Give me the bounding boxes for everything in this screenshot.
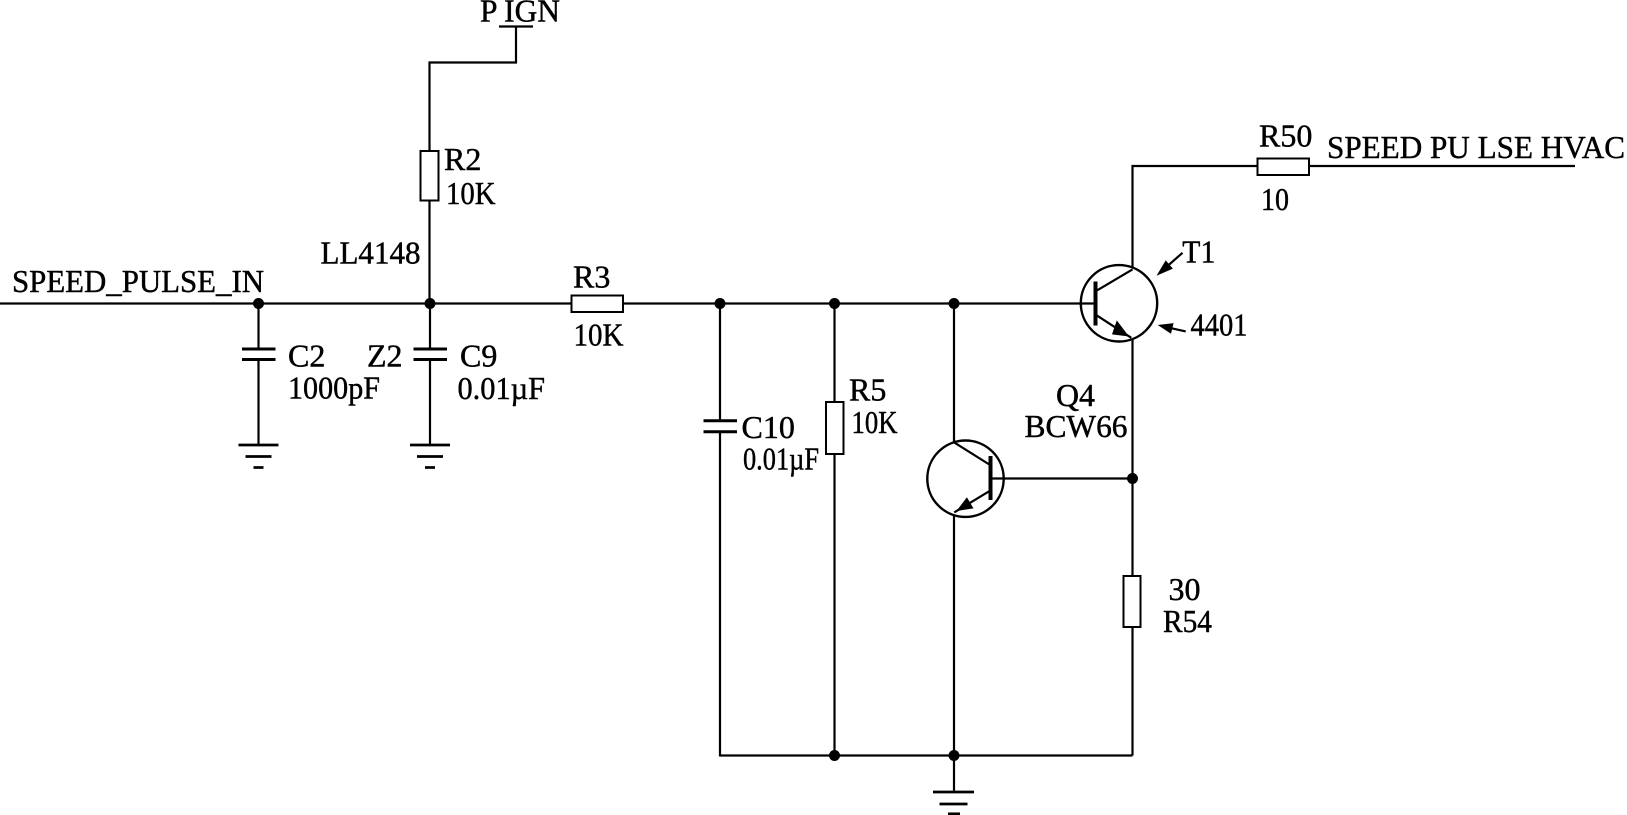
wire Q4 base to node <box>993 477 1133 479</box>
wire bottom ground rail <box>720 754 1133 756</box>
capacitor C10 <box>704 304 738 757</box>
svg-text:10K: 10K <box>446 175 496 211</box>
ground under C2 <box>239 445 279 468</box>
svg-text:R3: R3 <box>573 259 610 295</box>
svg-text:10: 10 <box>1261 181 1289 217</box>
node junction ground tap <box>949 750 960 761</box>
svg-text:1000pF: 1000pF <box>288 370 380 406</box>
wire Q4 emitter vertical <box>953 515 955 756</box>
svg-text:R54: R54 <box>1163 603 1212 639</box>
pointer arrow to 4401 <box>1158 323 1186 334</box>
node junction R5 tap <box>829 298 840 309</box>
wire R2 to node LL4148 <box>428 200 430 304</box>
node junction Q4 collector tap <box>949 298 960 309</box>
svg-text:R2: R2 <box>444 141 481 177</box>
svg-text:R5: R5 <box>849 372 886 408</box>
wire T1 collector up and right to R50 <box>1133 166 1576 268</box>
node junction Q4 base / T1 emitter / R54 <box>1127 473 1138 484</box>
pointer arrow to T1 <box>1157 253 1183 276</box>
svg-text:C2: C2 <box>288 338 325 374</box>
power symbol bar P IGN <box>499 25 533 27</box>
svg-text:4401: 4401 <box>1191 307 1248 343</box>
resistor R3 <box>572 296 624 313</box>
capacitor C2 <box>242 304 276 446</box>
node junction R5 bottom <box>829 750 840 761</box>
svg-text:0.01µF: 0.01µF <box>743 441 819 477</box>
wire SPEED_PULSE_IN main horizontal <box>0 302 1096 304</box>
resistor R2 <box>421 151 439 201</box>
svg-text:T1: T1 <box>1182 234 1215 270</box>
resistor R5 <box>826 304 844 756</box>
svg-text:LL4148: LL4148 <box>321 235 421 271</box>
node junction C10 tap <box>715 298 726 309</box>
transistor Q4 <box>927 441 1003 517</box>
resistor R54 <box>1124 576 1141 627</box>
svg-text:P IGN: P IGN <box>480 0 560 29</box>
svg-text:R50: R50 <box>1259 118 1312 154</box>
node junction C2 tap <box>253 298 264 309</box>
svg-text:Z2: Z2 <box>367 338 403 374</box>
svg-text:10K: 10K <box>852 404 898 440</box>
svg-text:0.01µF: 0.01µF <box>458 370 546 406</box>
ground symbol bottom <box>933 792 974 814</box>
svg-text:C9: C9 <box>460 338 497 374</box>
svg-text:BCW66: BCW66 <box>1025 408 1128 444</box>
wire Q4 collector vertical <box>953 304 955 443</box>
svg-text:SPEED_PULSE_IN: SPEED_PULSE_IN <box>12 263 264 299</box>
wire T1 emitter to R54 <box>1131 340 1133 577</box>
node junction R2/C9 <box>425 298 436 309</box>
resistor R50 <box>1258 159 1310 176</box>
transistor T1 <box>1081 265 1157 341</box>
svg-text:SPEED PU LSE HVAC: SPEED PU LSE HVAC <box>1327 129 1625 165</box>
svg-text:10K: 10K <box>574 317 624 353</box>
wire P IGN to R2 <box>430 27 517 154</box>
wire R54 to bottom rail <box>1131 627 1133 756</box>
wire ground stem <box>953 756 955 791</box>
ground under C9 <box>410 445 450 468</box>
capacitor C9 <box>414 304 448 446</box>
svg-text:30: 30 <box>1169 571 1201 607</box>
